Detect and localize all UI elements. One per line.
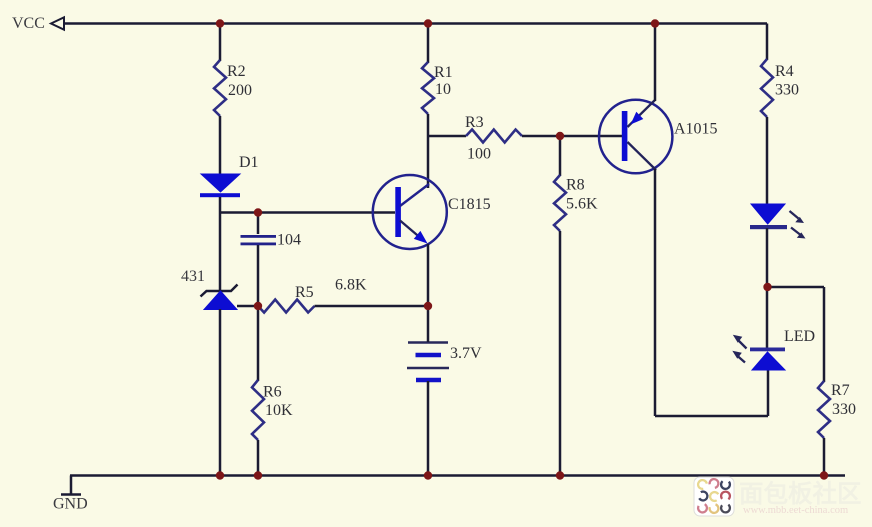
- LED2: [732, 335, 785, 370]
- wire: R3 row left segment: [428, 135, 466, 138]
- svg-text:R6: R6: [263, 384, 282, 401]
- wire: R2 column top (rail to R2): [219, 24, 222, 62]
- junction dot top rail / A1015 emitter: [651, 19, 659, 27]
- junction dot 431 ref node: [254, 302, 262, 310]
- svg-text:10K: 10K: [265, 402, 293, 419]
- svg-text:R8: R8: [566, 177, 585, 194]
- svg-text:D1: D1: [239, 154, 259, 171]
- junction dot top rail / R1: [424, 19, 432, 27]
- svg-text:面包板社区: 面包板社区: [739, 479, 862, 508]
- wire: bottom GND rail: [70, 474, 845, 477]
- svg-text:6.8K: 6.8K: [335, 277, 367, 294]
- resistor R1: [422, 62, 434, 114]
- wire: A1015 collector down: [654, 169, 657, 416]
- svg-text:104: 104: [277, 232, 301, 249]
- wire: A1015 emitter to top rail: [654, 24, 657, 102]
- wire: R4 column top: [766, 24, 769, 61]
- svg-text:100: 100: [467, 146, 491, 163]
- svg-text:LED: LED: [784, 328, 815, 345]
- wire: R1 to C1815 collector: [427, 114, 430, 188]
- shunt regulator 431: [201, 285, 238, 310]
- resistor R7: [818, 381, 830, 438]
- wire: cap branch down from base wire: [257, 213, 260, 235]
- wire: battery to bottom rail: [427, 381, 430, 476]
- wire: R6 top: [257, 306, 260, 381]
- wire: R6 to bottom rail: [257, 440, 260, 476]
- LED1: [750, 204, 806, 239]
- capacitor 104: [241, 235, 277, 245]
- wire: R8 top: [559, 136, 562, 176]
- junction dot top rail / R2: [216, 19, 224, 27]
- wire: LED1 to junction: [766, 228, 769, 288]
- wire: R4 to LED1: [766, 117, 769, 205]
- wire: junction to R7 branch: [767, 286, 824, 289]
- wire: R8 to bottom rail: [559, 231, 562, 476]
- svg-text:200: 200: [228, 82, 252, 99]
- svg-text:330: 330: [832, 401, 856, 418]
- svg-text:R1: R1: [434, 64, 453, 81]
- ground: [61, 493, 81, 496]
- wire: R1 column top (rail to R1): [427, 24, 430, 64]
- svg-text:R4: R4: [775, 63, 794, 80]
- svg-text:R3: R3: [465, 114, 484, 131]
- resistor R8: [554, 175, 566, 231]
- junction dot bottom rail / battery: [424, 471, 432, 479]
- wire: up to LED2 anode: [767, 370, 770, 416]
- wire: R2 to D1: [219, 116, 222, 175]
- wire: top VCC rail: [64, 22, 767, 25]
- wire: GND drop: [70, 476, 73, 495]
- svg-text:10: 10: [435, 81, 451, 98]
- wire: base branch to C1815 (node B): [220, 211, 395, 214]
- svg-text:VCC: VCC: [12, 15, 45, 32]
- wire: collector run to LED2: [655, 415, 768, 418]
- svg-text:R5: R5: [295, 284, 314, 301]
- resistor R6: [252, 380, 264, 440]
- wire: R5 to emitter node: [315, 305, 429, 308]
- junction dot LED1 / R7 node: [763, 283, 771, 291]
- diode D1: [200, 174, 240, 197]
- wire: R7 branch down: [823, 287, 826, 382]
- svg-text:R7: R7: [831, 382, 850, 399]
- transistor Q2 A1015: [599, 100, 672, 173]
- battery 3.7V: [407, 343, 449, 381]
- svg-text:3.7V: 3.7V: [450, 345, 482, 362]
- transistor Q1 C1815: [373, 175, 447, 249]
- resistor R5: [258, 300, 315, 313]
- wire: 431 to bottom rail: [219, 309, 222, 476]
- wire: D1 to 431: [219, 197, 222, 290]
- resistor R3: [466, 130, 522, 143]
- svg-text:431: 431: [181, 268, 205, 285]
- svg-text:C1815: C1815: [448, 196, 491, 213]
- junction dot bottom rail / R8: [556, 471, 564, 479]
- wire: cap to R5 node: [257, 245, 260, 306]
- junction dot bottom rail / R6: [254, 471, 262, 479]
- junction dot R3 / R8 node: [556, 132, 564, 140]
- wire: junction down to LED2: [766, 287, 769, 349]
- svg-text:R2: R2: [227, 63, 246, 80]
- svg-text:www.mbb.eet-china.com: www.mbb.eet-china.com: [743, 505, 848, 516]
- junction dot bottom rail / 431: [216, 471, 224, 479]
- svg-text:5.6K: 5.6K: [566, 196, 598, 213]
- junction dot emitter / battery node: [424, 302, 432, 310]
- resistor R4: [761, 59, 773, 117]
- svg-text:GND: GND: [53, 496, 88, 513]
- svg-text:330: 330: [775, 82, 799, 99]
- junction dot base node / cap: [254, 208, 262, 216]
- junction dot bottom rail / R7: [820, 471, 828, 479]
- svg-text:A1015: A1015: [674, 121, 718, 138]
- wire: C1815 emitter to battery node: [427, 244, 430, 306]
- wire: R3 to R8 node: [522, 135, 560, 138]
- watermark logo card: [694, 477, 734, 516]
- wire: battery top lead: [427, 306, 430, 342]
- wire: 431 reference to node: [237, 305, 258, 308]
- resistor R2: [214, 60, 226, 116]
- VCC arrow: [51, 17, 64, 29]
- wire: R7 to bottom rail: [823, 438, 826, 476]
- wire: node to A1015 base: [560, 135, 623, 138]
